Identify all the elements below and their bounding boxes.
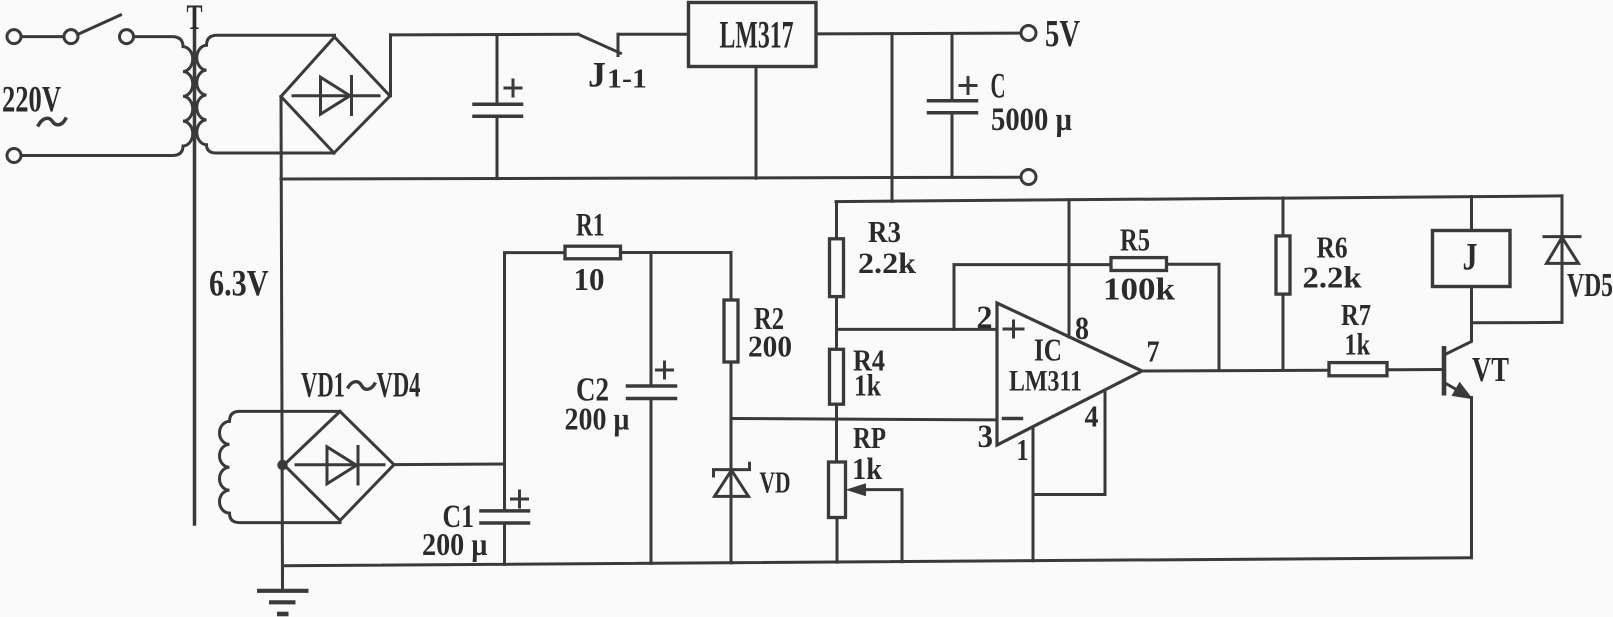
R2 label: [754, 300, 784, 336]
svg-text:LM317: LM317: [720, 13, 794, 56]
svg-text:2.2k: 2.2k: [858, 247, 916, 280]
wire (LM317 output to 5V terminal): [816, 32, 1021, 36]
wire (bottom rail): [283, 558, 1472, 566]
R4 label: [853, 343, 885, 378]
R1 value 10: [574, 261, 605, 297]
pin 7 label: [1147, 334, 1160, 369]
VD5 label: [1567, 267, 1613, 304]
wire (pin 8 to comparator rail): [1068, 200, 1071, 337]
C label: [991, 66, 1006, 106]
transformer secondary winding 2 (with wires to bridge 2): [219, 411, 340, 522]
svg-text:LM311: LM311: [1009, 365, 1082, 398]
svg-text:4: 4: [1085, 399, 1099, 434]
VT label: [1472, 350, 1509, 389]
wire (non-inverting input node, pin 2): [837, 328, 998, 331]
svg-text:2: 2: [977, 300, 993, 336]
voltage regulator LM317: [689, 3, 817, 67]
transformer T core: [193, 31, 197, 525]
svg-text:C: C: [991, 66, 1006, 106]
wire (top rail to switch J1-1): [391, 33, 579, 37]
svg-text:J: J: [1463, 236, 1478, 279]
switch contact throw: [120, 30, 134, 44]
wire (R2 bottom through VD to bottom rail): [730, 362, 733, 563]
input terminal A (220V): [7, 30, 21, 44]
resistor R1: [565, 246, 621, 259]
wire (terminal A to switch): [21, 35, 64, 38]
IC label: [1034, 332, 1062, 368]
R3 value 2.2k: [858, 247, 916, 280]
potentiometer RP: [829, 462, 903, 562]
switch J1-1 contact: [617, 34, 620, 55]
wire (bridge1 left vertex long vertical to ground): [281, 97, 283, 591]
wire (J1-1 to LM317): [618, 33, 689, 36]
svg-text:1k: 1k: [852, 451, 883, 486]
wire (bridge2 right vertex to C1 node): [394, 463, 505, 467]
op-amp minus input mark: [1004, 417, 1022, 421]
zener diode VD: [714, 463, 750, 496]
pin 1 label: [1017, 432, 1029, 467]
op-amp IC LM311 triangle: [997, 303, 1142, 445]
svg-text:7: 7: [1147, 334, 1160, 369]
transformer T primary winding (with leads): [21, 37, 193, 156]
pin 2 label: [977, 300, 993, 336]
C2 label: [576, 372, 609, 409]
wire (mid rail to 0V terminal): [281, 177, 1021, 179]
svg-text:5V: 5V: [1045, 13, 1080, 55]
pin 4 label: [1085, 399, 1099, 434]
T label: [187, 0, 203, 37]
switch J1-1 blade: [578, 34, 620, 53]
J1-1 label: [588, 55, 647, 95]
svg-text:8: 8: [1075, 311, 1089, 347]
bridge 2 diode symbol: [296, 447, 384, 485]
R5 label: [1120, 222, 1150, 258]
6.3V label: [209, 264, 269, 305]
5000u value label: [991, 102, 1072, 138]
wire (comparator section top rail): [836, 196, 1562, 202]
5V label: [1045, 13, 1080, 55]
wire (inverting input node, pin 3): [731, 419, 997, 420]
switch contact pole: [64, 30, 78, 44]
wire (top rail down through mid rail to comparator rail): [891, 34, 894, 202]
svg-text:T: T: [187, 0, 203, 37]
bridge rectifier 2 diamond (VD1~VD4): [284, 411, 394, 520]
R2 value 200: [748, 329, 792, 364]
svg-text:6.3V: 6.3V: [209, 264, 269, 305]
220V label: [2, 80, 61, 121]
ground: [257, 566, 309, 614]
R3 label: [868, 214, 901, 249]
wire (feedback from pin2 node up to R5): [954, 265, 1111, 330]
svg-text:5000 µ: 5000 µ: [991, 102, 1072, 138]
bridge rectifier 1 diamond: [281, 37, 390, 153]
diode VD5 (with leads): [1544, 196, 1580, 323]
R6 value 2.2k: [1303, 260, 1363, 295]
junction dot (bridge2 left vertex): [277, 460, 287, 470]
resistor R2: [724, 300, 738, 362]
plus sign (C1): [512, 491, 528, 507]
svg-text:3: 3: [978, 419, 994, 455]
capacitor C2: [628, 253, 676, 564]
resistor R3 (with leads): [830, 202, 844, 330]
svg-text:VD: VD: [760, 465, 791, 500]
svg-text:VD4: VD4: [377, 365, 421, 405]
input terminal B (220V): [7, 149, 21, 163]
wire (pin 1 leg down to bottom rail): [1032, 495, 1035, 561]
5V output terminal: [1021, 26, 1036, 41]
power switch blade: [78, 15, 121, 35]
svg-text:RP: RP: [853, 420, 886, 455]
R1 label: [576, 208, 605, 244]
VD1~VD4 label: [301, 365, 421, 405]
svg-text:1k: 1k: [1345, 327, 1371, 362]
R5 value 100k: [1103, 271, 1175, 307]
plus sign (filter capacitor): [505, 80, 521, 96]
wire (R7 to transistor base): [1387, 368, 1442, 371]
C1 label: [443, 499, 475, 535]
svg-text:200 µ: 200 µ: [422, 526, 488, 562]
svg-text:R5: R5: [1120, 222, 1150, 258]
0V output terminal: [1021, 170, 1036, 185]
R4 value 1k: [854, 368, 882, 403]
resistor R5: [1111, 258, 1167, 271]
svg-text:1: 1: [1017, 432, 1029, 467]
AC tilde symbol: [39, 118, 66, 125]
wire (R5 right down to output): [1167, 264, 1220, 370]
svg-text:1-1: 1-1: [607, 64, 647, 94]
LM311 label: [1009, 365, 1082, 398]
R7 value 1k: [1345, 327, 1371, 362]
RP label: [853, 420, 886, 455]
VD label: [760, 465, 791, 500]
transformer secondary winding 1 (with wires to bridge 1): [197, 35, 335, 153]
filter capacitor (post-bridge): [474, 35, 522, 179]
smoothing capacitor C: [929, 34, 977, 178]
plus sign (C2): [657, 362, 673, 378]
transistor VT: [1444, 287, 1473, 558]
svg-text:J: J: [588, 55, 606, 95]
wire (pins 1 and 4 tie): [1033, 390, 1105, 494]
svg-text:R3: R3: [868, 214, 901, 249]
svg-text:1k: 1k: [854, 368, 882, 403]
resistor R4 (with leads): [830, 329, 844, 462]
wire (op-amp output pin 7 to R7): [1142, 369, 1329, 373]
svg-text:2.2k: 2.2k: [1303, 260, 1363, 295]
wire (LM317 adj pin down to mid rail): [755, 67, 758, 178]
resistor R6 (with leads): [1276, 198, 1290, 370]
op-amp plus input mark: [1004, 321, 1023, 337]
pin 3 label: [978, 419, 994, 455]
svg-text:100k: 100k: [1103, 271, 1175, 307]
svg-text:VD5: VD5: [1567, 267, 1613, 304]
svg-text:220V: 220V: [2, 80, 61, 121]
bridge 1 diode symbol: [293, 77, 379, 115]
wire (bridge1 right vertex up to top rail): [389, 35, 392, 96]
wire (collector node to VD5 bottom): [1472, 321, 1563, 324]
C2 value 200u: [565, 401, 630, 437]
relay coil J (with top lead): [1433, 197, 1511, 287]
plus sign (capacitor C): [960, 78, 976, 94]
RP value 1k: [852, 451, 883, 486]
svg-text:200 µ: 200 µ: [565, 401, 630, 437]
svg-text:R1: R1: [576, 208, 605, 244]
capacitor C1: [481, 464, 529, 564]
svg-text:10: 10: [574, 261, 605, 297]
pin 8 label: [1075, 311, 1089, 347]
wire (C1 node up and over to R1 left): [505, 253, 566, 464]
R7 label: [1341, 297, 1371, 332]
svg-text:IC: IC: [1034, 332, 1062, 368]
C1 value 200u: [422, 526, 488, 562]
R6 label: [1317, 230, 1348, 265]
wire (R1 right to R2 column): [621, 253, 732, 301]
resistor R7: [1329, 363, 1387, 376]
svg-text:VD1: VD1: [301, 365, 345, 405]
svg-text:VT: VT: [1472, 350, 1509, 389]
svg-text:200: 200: [748, 329, 792, 364]
